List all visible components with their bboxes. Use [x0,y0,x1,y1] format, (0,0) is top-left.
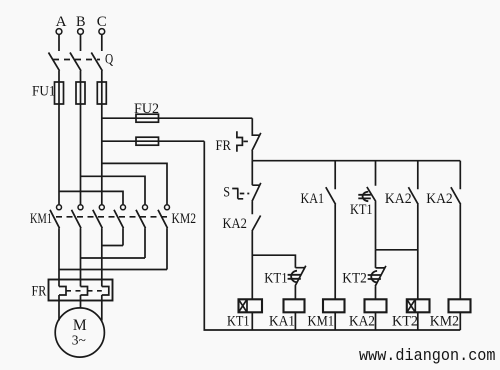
label Q [105,52,113,68]
wire KA2 coil to rail [375,312,377,330]
coil KA2 [365,299,387,312]
label KA2 (coil) [349,313,375,329]
node B [76,14,86,34]
label S [223,184,230,200]
svg-text:FR: FR [32,284,47,300]
label KT1 (coil) [227,313,250,329]
svg-text:www.diangon.com: www.diangon.com [359,347,496,366]
wire control return rail (left vertical + bottom rail) [204,141,460,330]
svg-text:KA2: KA2 [426,191,452,207]
label KA2 (middle contact) [385,191,412,207]
wire KM2-1 cross to phase C column [102,245,123,247]
FR control actuator hump [237,131,243,151]
svg-text:3~: 3~ [72,333,86,348]
fuse FU1 pole 1 [55,82,64,104]
timer contact KT1 delayed NO [358,161,376,250]
button S NC contact [252,183,261,214]
wire branch to KT1 contact [252,255,295,268]
timer contact KT1 delayed NC [288,266,306,300]
svg-text:KM1: KM1 [308,313,335,329]
wire FU2 upper branch [102,117,253,119]
label KM1 (coil) [308,313,335,329]
wire KM2 coil to rail [459,312,461,330]
contactor KM1 contact 2 [72,205,84,287]
label KT2 (coil) [392,313,418,329]
wire phase C down [101,104,103,204]
FR heater linkage dashed [66,290,102,292]
wire phase B down [80,104,82,204]
relay contact KA2 NO (right) [451,161,461,300]
svg-text:S: S [223,184,230,200]
label FU2 [134,101,159,117]
svg-text:KA2: KA2 [223,216,247,232]
wire KM1 coil to rail [334,312,336,330]
coil KA1 [284,299,305,312]
wire FU2 lower branch [102,140,205,142]
switch Q pole 1 [49,35,60,83]
svg-text:KM2: KM2 [430,313,459,329]
contactor KM2 contact 2 [136,205,148,258]
svg-text:KA1: KA1 [269,313,295,329]
svg-text:FR: FR [216,138,232,154]
timer contact KT2 delayed NC [368,250,386,299]
contactor KM2 contact 1 [114,205,126,246]
switch Q pole 3 [91,35,102,83]
svg-text:C: C [97,14,107,30]
node A [56,14,67,34]
wire KA1 coil to rail [294,312,296,330]
svg-text:KT1: KT1 [350,202,373,218]
label FR (control) [216,138,232,154]
label KT1 (delayed NC) [264,271,287,287]
label KA2 (right contact) [426,191,452,207]
label KA1 (contact) [301,191,325,207]
svg-text:B: B [76,14,86,30]
svg-text:KT2: KT2 [342,271,367,287]
svg-text:KA2: KA2 [385,191,412,207]
svg-text:A: A [56,14,67,30]
label KA2 (left branch) [223,216,247,232]
label KT2 (delayed NC) [342,271,367,287]
label KM1 [30,211,52,227]
node C [97,14,107,34]
relay contact KA2 NO (middle) [408,161,418,300]
wire phase B to KM2 pole 2 [81,176,146,204]
watermark [359,347,496,366]
contactor KM2 contact 3 [158,205,170,270]
label FU1 [32,84,56,100]
wire phase A down [58,104,60,204]
fuse FU1 pole 2 [76,82,85,104]
svg-text:KM1: KM1 [30,211,52,227]
S actuator dashed link [240,193,250,195]
contactor KM1 contact 1 [50,205,62,287]
svg-text:KT1: KT1 [264,271,287,287]
svg-text:KT1: KT1 [227,313,250,329]
label FR (power) [32,284,47,300]
contactor KM1 contact 3 [93,205,105,287]
svg-text:FU1: FU1 [32,84,56,100]
coil KT2 [407,299,430,312]
fuse FU1 pole 3 [97,82,106,104]
svg-text:M: M [73,317,87,334]
switch Q linkage [53,59,100,61]
svg-text:Q: Q [105,52,113,68]
junction wire KT1/KA2 branches [376,249,418,251]
svg-text:KA1: KA1 [301,191,325,207]
wire phase C to KM2 pole 3 [102,163,167,204]
wire KM2-3 cross to phase A column [59,269,167,271]
wire KM2-2 cross to phase B column [81,257,146,259]
svg-text:KT2: KT2 [392,313,418,329]
motor M [55,308,104,357]
coil KM2 [449,299,471,312]
label KA1 (coil) [269,313,295,329]
fuse FU2 upper [136,114,159,122]
coil KM1 [323,299,345,312]
FR heater element 3 [102,287,109,321]
svg-text:KM2: KM2 [172,211,197,227]
fuse FU2 lower [136,137,159,145]
button S actuator [232,189,243,199]
control top rail [252,160,460,162]
relay contact KA1 NO [326,161,336,300]
FR heater element 1 [59,287,66,321]
wire KT1 coil to rail [251,312,253,330]
thermal relay FR box [49,280,113,301]
label KM2 (coil) [430,313,459,329]
FR NC contact (control) [252,118,261,161]
wire phase A to KM2 pole 1 [59,191,123,204]
wire KT2 coil to rail [417,312,419,330]
FR actuator dashed link [243,140,250,142]
svg-text:KA2: KA2 [349,313,375,329]
KM linkage dashed [56,216,168,218]
switch Q pole 2 [70,35,81,83]
label KT1 (upper contact) [350,202,373,218]
relay contact KA2 NO (left branch) [252,216,261,300]
FR heater element 2 [81,287,88,309]
wire left column to S [251,161,253,186]
coil KT1 [239,299,263,312]
label KM2 [172,211,197,227]
